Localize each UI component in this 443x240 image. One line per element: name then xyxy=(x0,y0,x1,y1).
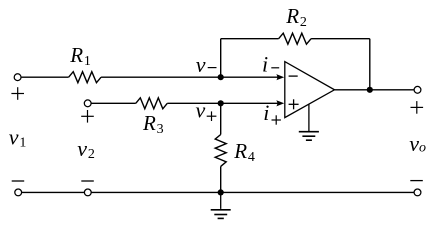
wire R4 to bottom rail xyxy=(220,166,222,192)
terminal vo positive xyxy=(414,86,421,93)
wire feedback right vertical to output node xyxy=(369,39,371,90)
terminal vo negative xyxy=(414,189,421,196)
svg-text:v: v xyxy=(196,97,206,122)
wire v1 to R1 xyxy=(21,76,69,78)
resistor R3 xyxy=(136,98,168,109)
svg-text:R4: R4 xyxy=(233,139,255,165)
wire feedback top left to R2 xyxy=(221,38,279,40)
svg-text:v: v xyxy=(196,52,206,77)
arrowhead current i+ into op-amp xyxy=(276,100,284,106)
wire node v+ down to R4 xyxy=(220,103,222,134)
node v+ junction dot xyxy=(218,100,224,106)
terminal v1 positive xyxy=(14,74,21,81)
svg-text:i: i xyxy=(263,100,269,125)
svg-text:R1: R1 xyxy=(69,43,91,69)
svg-text:R3: R3 xyxy=(142,111,164,137)
wire bottom rail xyxy=(22,191,415,193)
wire R1 to op-amp inverting input xyxy=(101,76,278,78)
node bottom ground junction dot xyxy=(218,189,224,195)
label i+ (plus sign) xyxy=(272,115,281,124)
minus sign above terminal v1 negative xyxy=(12,180,25,182)
resistor R1 xyxy=(69,72,101,83)
terminal v2 positive xyxy=(84,100,91,107)
wire feedback left vertical from node v- xyxy=(220,39,222,77)
plus sign at terminal v1 xyxy=(11,87,24,100)
ground at op-amp xyxy=(299,104,319,140)
plus sign at terminal vo xyxy=(411,101,424,114)
wire op-amp output xyxy=(335,89,415,91)
ground at bottom rail xyxy=(211,192,231,218)
terminal v2 negative xyxy=(84,189,91,196)
node output junction dot xyxy=(367,87,373,93)
op-amp U1 xyxy=(285,62,335,118)
node v- junction dot xyxy=(218,74,224,80)
minus sign above terminal v2 negative xyxy=(81,180,94,182)
svg-text:v2: v2 xyxy=(77,136,95,162)
label v+ (plus sign) xyxy=(207,111,217,121)
label i- (minus bar) xyxy=(271,67,279,69)
resistor R2 xyxy=(279,33,311,44)
resistor R4 xyxy=(215,135,226,167)
plus sign at terminal v2 xyxy=(81,110,94,123)
wire R2 to right vertical xyxy=(311,38,370,40)
svg-text:v1: v1 xyxy=(9,125,27,151)
wire R3 to op-amp non-inverting input xyxy=(167,102,278,104)
svg-text:R2: R2 xyxy=(285,4,307,30)
svg-text:i: i xyxy=(262,52,268,77)
minus sign above terminal vo negative xyxy=(410,180,423,182)
arrowhead current i- into op-amp xyxy=(276,74,284,80)
wire v2 to R3 xyxy=(91,102,136,104)
terminal v1 negative xyxy=(15,189,22,196)
label v- (minus bar) xyxy=(208,67,217,69)
svg-text:vo: vo xyxy=(409,131,426,156)
